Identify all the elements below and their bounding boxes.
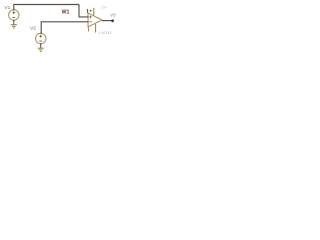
terminal tick V2 top [40,32,41,33]
ground GND1 [11,21,17,28]
svg-text:15V: 15V [101,5,108,9]
wire down from corner into op-amp non-inverting input [79,5,88,17]
wire from V1 top to node W1 corner [14,5,79,10]
output node dot vo [111,19,114,22]
terminal tick output [102,20,103,21]
svg-text:LM741: LM741 [99,31,112,35]
svg-text:V2: V2 [30,25,36,31]
ground GND2 [38,44,44,51]
svg-text:V1: V1 [4,5,10,11]
op-amp positive supply pin [93,8,95,16]
supply plus marker [90,10,92,12]
op-amp negative supply pin [95,24,97,33]
op-amp plus input mark [89,16,91,18]
terminal tick V1 bottom [13,20,14,21]
op-amp U1 body [88,13,102,27]
supply minus marker [88,27,90,31]
terminal tick supply top [87,9,88,13]
wire from V2 top to op-amp inverting input [41,22,88,34]
svg-text:W1: W1 [62,10,70,16]
terminal tick V1 top [13,9,14,10]
svg-text:vo: vo [110,13,116,19]
terminal tick op-amp -in [87,21,88,22]
voltage source V2 [36,33,46,43]
op-amp output wire [102,20,112,22]
voltage source V1 [9,10,19,20]
op-amp minus input mark [89,21,91,23]
terminal tick V2 bottom [40,43,41,44]
terminal tick op-amp +in [87,16,88,17]
